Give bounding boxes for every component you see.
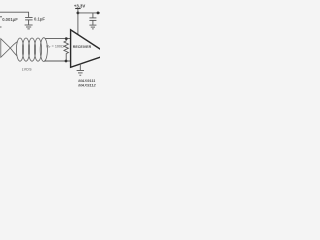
svg-text:0.1μF: 0.1μF: [34, 16, 45, 21]
wire bottom rail to receiver: [44, 60, 70, 62]
power terminal bar: [75, 8, 80, 10]
twisted pair loops: [16, 38, 47, 62]
ground (below C2): [25, 25, 33, 29]
node A (junction dot on VCC): [77, 12, 80, 15]
svg-text:RT = 100Ω: RT = 100Ω: [46, 45, 64, 49]
ground (below receiver): [77, 71, 84, 76]
node fragment (cropped symbol at left edge): [0, 26, 2, 28]
wire top rail to receiver: [45, 38, 70, 40]
op-amp U2 RECEIVER (triangle, apex clipped right): [71, 30, 104, 68]
ground (below C3): [89, 25, 96, 29]
wire driver output lower: [10, 48, 17, 56]
svg-text:MAX9112: MAX9112: [78, 83, 96, 88]
node C (top input junction): [65, 37, 68, 40]
svg-text:RECEIVER: RECEIVER: [73, 45, 92, 49]
node B (junction dot right): [97, 12, 100, 15]
wire receiver ground lead: [79, 64, 81, 71]
wire from +3.3V down to receiver: [77, 9, 79, 35]
capacitor plate fragment (cropped at left edge): [0, 16, 2, 18]
node D (bottom input junction): [65, 60, 68, 63]
wire driver output upper: [10, 42, 17, 48]
wire VCC rail top-left: [0, 12, 29, 17]
capacitor C3: [89, 13, 96, 25]
capacitor C2: [25, 18, 32, 25]
svg-text:LVDS: LVDS: [22, 67, 32, 71]
background: [0, 0, 100, 100]
resistor RT (termination): [64, 39, 68, 61]
svg-text:0.001μF: 0.001μF: [2, 17, 18, 22]
LVDS driver U1 (triangle, cropped at left): [1, 39, 11, 58]
svg-text:+3.3V: +3.3V: [74, 3, 85, 8]
wire VCC to right bypass caps: [78, 12, 100, 14]
